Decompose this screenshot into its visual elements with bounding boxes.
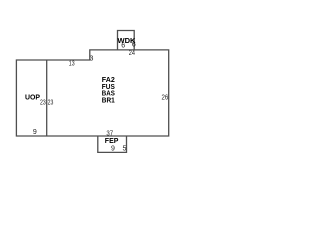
svg-text:UOP: UOP	[25, 93, 40, 102]
svg-text:23: 23	[40, 99, 46, 106]
svg-text:6: 6	[121, 42, 125, 49]
svg-text:9: 9	[111, 145, 115, 152]
WDK deck box	[118, 31, 135, 50]
interior wall (UOP divider)	[46, 60, 48, 136]
svg-text:9: 9	[33, 129, 37, 136]
svg-text:3: 3	[90, 55, 94, 62]
svg-text:26: 26	[162, 95, 169, 102]
svg-text:24: 24	[129, 50, 135, 57]
FEP porch box	[98, 136, 127, 152]
svg-text:FEP: FEP	[105, 136, 119, 145]
svg-text:23: 23	[48, 99, 54, 106]
svg-text:13: 13	[69, 61, 75, 68]
main building outline	[16, 50, 168, 136]
svg-text:5: 5	[122, 146, 126, 153]
svg-text:BR1: BR1	[102, 95, 115, 104]
svg-text:6: 6	[132, 42, 136, 49]
